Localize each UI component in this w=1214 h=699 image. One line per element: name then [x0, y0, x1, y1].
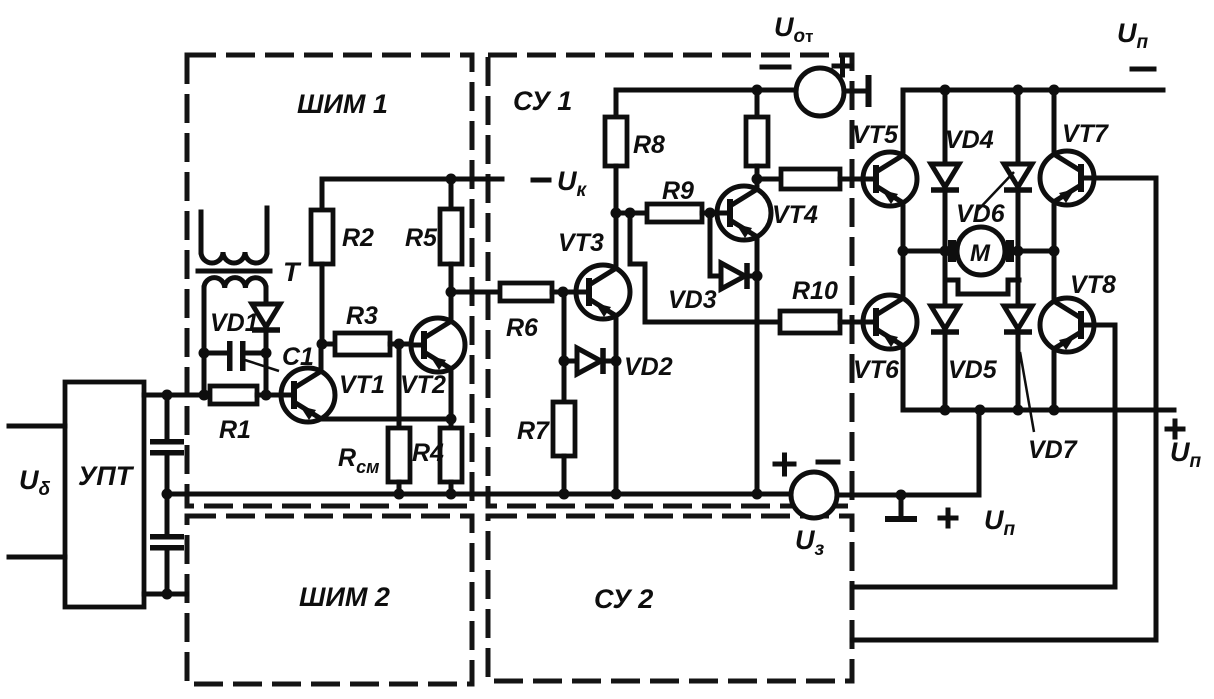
svg-text:СУ 2: СУ 2	[594, 584, 653, 614]
svg-text:R4: R4	[412, 439, 444, 467]
svg-text:ШИМ 1: ШИМ 1	[297, 89, 388, 119]
svg-text:VT2: VT2	[400, 371, 446, 399]
svg-text:VT3: VT3	[558, 229, 604, 257]
svg-text:M: M	[970, 240, 991, 267]
svg-text:C1: C1	[282, 343, 314, 371]
svg-text:VT1: VT1	[339, 371, 385, 399]
svg-text:VT4: VT4	[772, 201, 818, 229]
svg-text:R9: R9	[662, 177, 694, 205]
svg-text:R3: R3	[346, 302, 378, 330]
svg-text:R8: R8	[633, 131, 665, 159]
svg-text:VD3: VD3	[668, 286, 717, 314]
svg-text:УПТ: УПТ	[78, 461, 135, 491]
svg-text:VD5: VD5	[948, 356, 998, 384]
svg-text:R2: R2	[342, 224, 374, 252]
svg-text:T: T	[283, 257, 302, 287]
svg-text:VD1: VD1	[210, 309, 259, 337]
svg-text:VD4: VD4	[945, 126, 994, 154]
svg-text:VD2: VD2	[624, 353, 673, 381]
svg-text:VT6: VT6	[853, 356, 900, 384]
svg-text:СУ 1: СУ 1	[513, 86, 572, 116]
svg-text:VT8: VT8	[1070, 271, 1116, 299]
svg-text:VT5: VT5	[852, 121, 899, 149]
svg-text:VT7: VT7	[1062, 120, 1109, 148]
svg-text:R7: R7	[517, 417, 550, 445]
svg-text:R10: R10	[792, 277, 838, 305]
svg-text:ШИМ 2: ШИМ 2	[299, 582, 390, 612]
svg-text:VD6: VD6	[956, 200, 1006, 228]
svg-text:R5: R5	[405, 224, 438, 252]
svg-text:VD7: VD7	[1028, 436, 1078, 464]
svg-text:R1: R1	[219, 416, 251, 444]
svg-text:R6: R6	[506, 314, 539, 342]
